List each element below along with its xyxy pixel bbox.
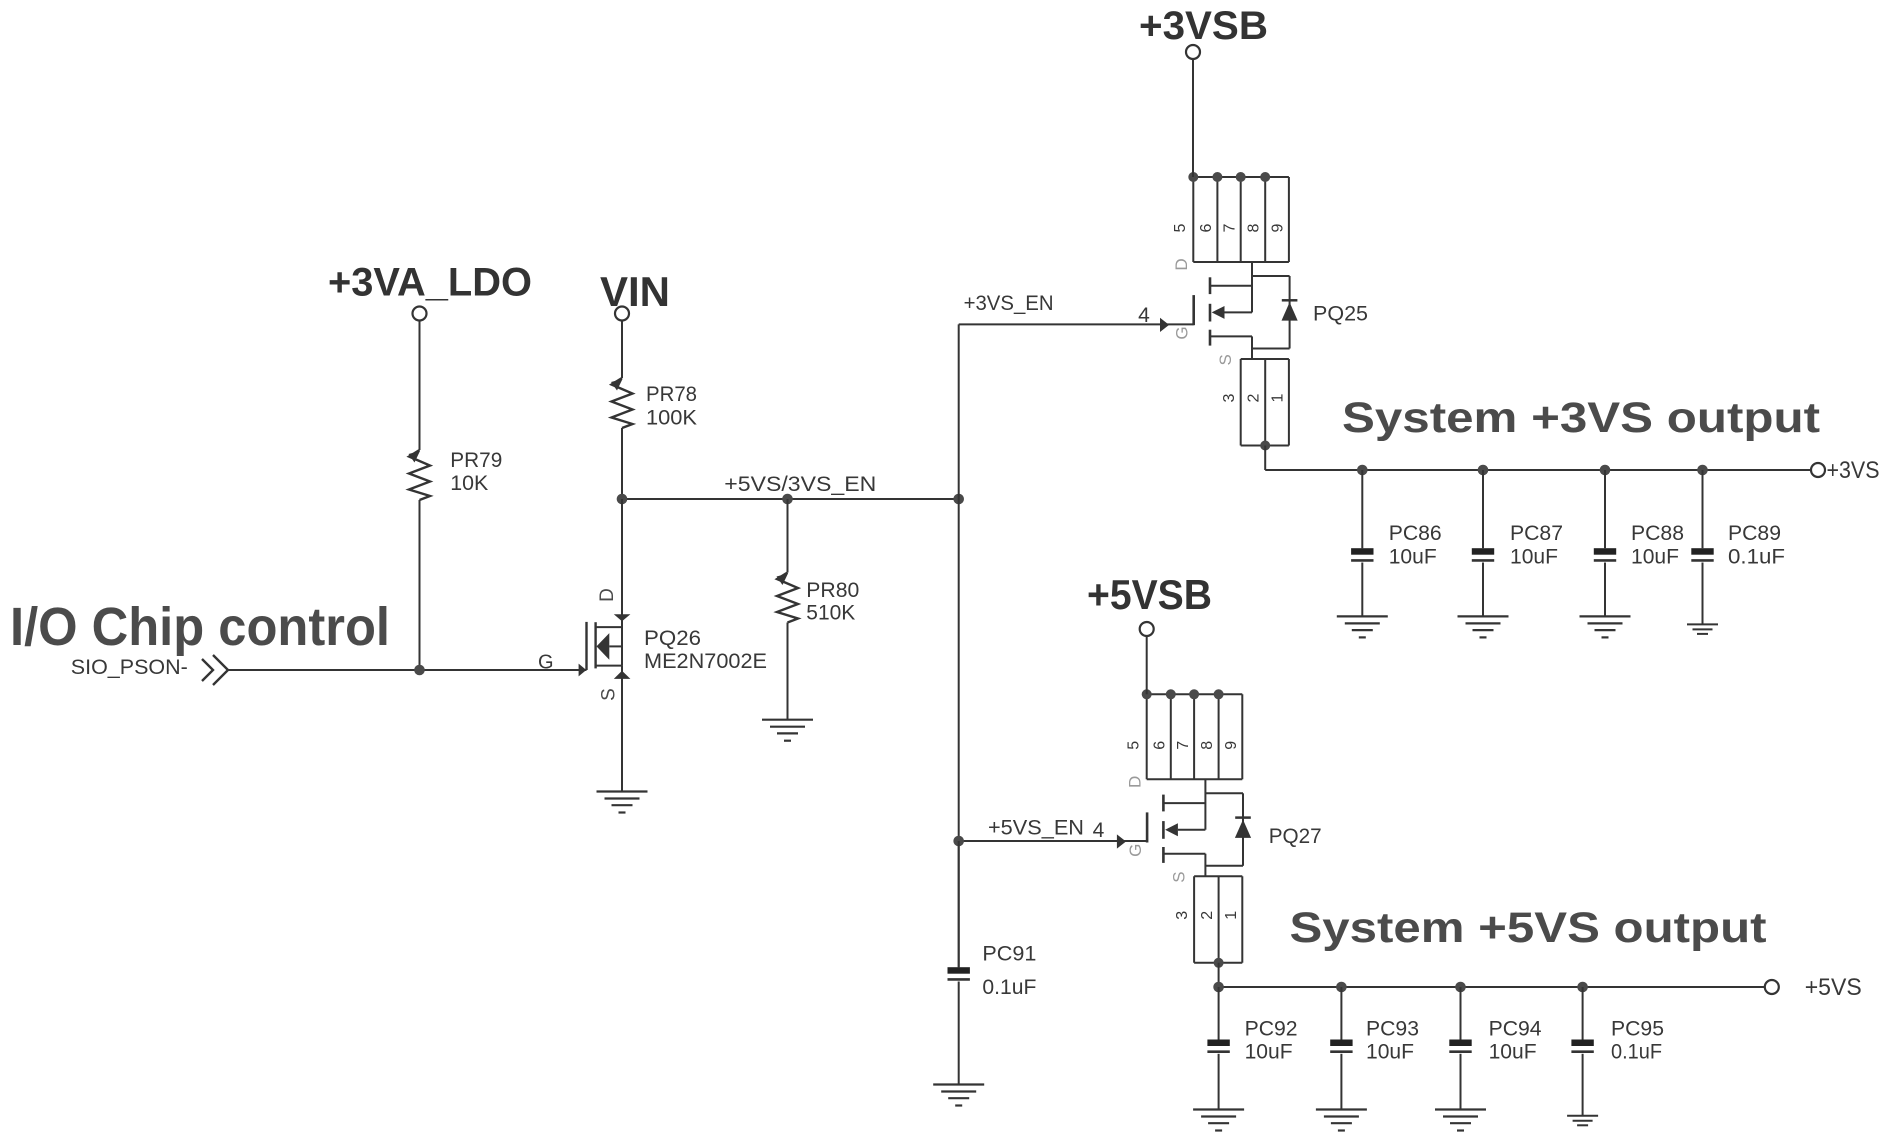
svg-text:PC89: PC89 bbox=[1728, 522, 1781, 545]
svg-text:PC93: PC93 bbox=[1366, 1018, 1419, 1041]
svg-text:510K: 510K bbox=[806, 602, 855, 625]
svg-text:7: 7 bbox=[1222, 223, 1239, 232]
svg-text:SIO_PSON-: SIO_PSON- bbox=[71, 656, 188, 679]
svg-text:ME2N7002E: ME2N7002E bbox=[644, 650, 767, 673]
svg-text:+5VS/3VS_EN: +5VS/3VS_EN bbox=[724, 473, 876, 496]
svg-text:4: 4 bbox=[1138, 304, 1150, 327]
svg-text:PQ27: PQ27 bbox=[1269, 825, 1322, 848]
svg-text:PC91: PC91 bbox=[982, 943, 1036, 966]
svg-text:10uF: 10uF bbox=[1510, 546, 1558, 569]
svg-text:10K: 10K bbox=[450, 472, 488, 495]
svg-text:PR79: PR79 bbox=[450, 449, 502, 472]
svg-text:PC87: PC87 bbox=[1510, 522, 1563, 545]
svg-text:+3VSB: +3VSB bbox=[1139, 4, 1268, 48]
svg-text:PQ25: PQ25 bbox=[1313, 303, 1368, 326]
svg-text:PC92: PC92 bbox=[1245, 1018, 1298, 1041]
svg-text:System +5VS output: System +5VS output bbox=[1290, 904, 1767, 952]
svg-text:+3VA_LDO: +3VA_LDO bbox=[328, 261, 532, 305]
svg-text:1: 1 bbox=[1270, 393, 1287, 402]
svg-text:G: G bbox=[1172, 326, 1191, 339]
svg-text:D: D bbox=[1172, 258, 1191, 270]
svg-text:+5VSB: +5VSB bbox=[1087, 571, 1212, 618]
svg-text:PR78: PR78 bbox=[646, 383, 697, 406]
svg-text:4: 4 bbox=[1093, 819, 1105, 842]
svg-text:G: G bbox=[538, 652, 554, 674]
svg-text:5: 5 bbox=[1172, 223, 1189, 232]
svg-text:3: 3 bbox=[1221, 393, 1238, 402]
svg-text:0.1uF: 0.1uF bbox=[1728, 546, 1785, 569]
svg-text:D: D bbox=[597, 588, 618, 602]
svg-text:10uF: 10uF bbox=[1245, 1041, 1293, 1064]
svg-text:+3VS: +3VS bbox=[1827, 457, 1880, 484]
svg-text:0.1uF: 0.1uF bbox=[982, 976, 1036, 999]
svg-text:0.1uF: 0.1uF bbox=[1611, 1041, 1662, 1064]
svg-text:S: S bbox=[599, 688, 620, 701]
svg-text:I/O Chip control: I/O Chip control bbox=[10, 597, 390, 657]
svg-text:8: 8 bbox=[1246, 223, 1263, 232]
svg-text:10uF: 10uF bbox=[1489, 1041, 1537, 1064]
svg-text:+3VS_EN: +3VS_EN bbox=[964, 292, 1054, 315]
svg-text:S: S bbox=[1216, 354, 1235, 365]
svg-text:PQ26: PQ26 bbox=[644, 627, 701, 650]
svg-text:10uF: 10uF bbox=[1366, 1041, 1414, 1064]
svg-text:PC88: PC88 bbox=[1631, 522, 1684, 545]
svg-text:10uF: 10uF bbox=[1631, 546, 1679, 569]
svg-text:PC94: PC94 bbox=[1489, 1018, 1542, 1041]
svg-text:PR80: PR80 bbox=[806, 579, 859, 602]
svg-text:VIN: VIN bbox=[600, 268, 670, 315]
svg-text:100K: 100K bbox=[646, 407, 697, 430]
svg-text:9: 9 bbox=[1270, 223, 1287, 232]
svg-text:System +3VS output: System +3VS output bbox=[1342, 394, 1820, 442]
svg-text:+5VS: +5VS bbox=[1805, 974, 1862, 1001]
svg-text:PC86: PC86 bbox=[1389, 522, 1442, 545]
svg-text:+5VS_EN: +5VS_EN bbox=[988, 817, 1084, 840]
svg-text:2: 2 bbox=[1246, 393, 1263, 402]
svg-text:6: 6 bbox=[1198, 223, 1215, 232]
svg-text:10uF: 10uF bbox=[1389, 546, 1437, 569]
svg-text:PC95: PC95 bbox=[1611, 1018, 1664, 1041]
